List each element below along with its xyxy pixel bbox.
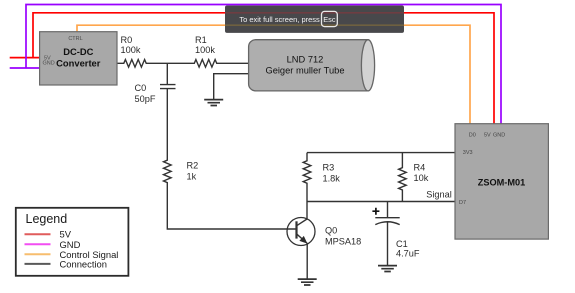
svg-text:R4: R4 [414,162,426,172]
svg-text:D7: D7 [459,200,466,206]
svg-text:Esc: Esc [323,15,336,24]
svg-text:1.8k: 1.8k [323,173,341,183]
svg-text:Converter: Converter [56,57,101,68]
svg-text:1k: 1k [187,171,197,181]
svg-text:C1: C1 [396,239,408,249]
svg-text:GND: GND [493,133,505,139]
svg-text:To exit full screen, press: To exit full screen, press [239,15,320,24]
svg-text:R0: R0 [121,35,133,45]
svg-text:D0: D0 [469,133,476,139]
svg-text:R2: R2 [187,161,199,171]
svg-text:ZSOM-M01: ZSOM-M01 [478,177,525,187]
svg-text:Connection: Connection [60,258,107,269]
svg-text:100k: 100k [195,45,215,55]
svg-text:Geiger muller Tube: Geiger muller Tube [265,66,344,76]
svg-text:MPSA18: MPSA18 [325,236,361,246]
svg-text:DC-DC: DC-DC [63,46,93,57]
svg-text:R1: R1 [195,35,207,45]
svg-text:GND: GND [43,61,55,67]
svg-text:4.7uF: 4.7uF [396,249,420,259]
svg-text:C0: C0 [135,83,147,93]
svg-text:50pF: 50pF [135,94,156,104]
svg-text:100k: 100k [121,45,141,55]
svg-text:Q0: Q0 [325,225,337,235]
svg-text:10k: 10k [414,173,429,183]
svg-text:Legend: Legend [26,212,68,226]
svg-text:5V: 5V [484,133,491,139]
svg-text:Signal: Signal [426,190,452,200]
svg-text:CTRL: CTRL [68,36,82,42]
svg-text:3V3: 3V3 [463,150,473,156]
svg-text:R3: R3 [323,163,335,173]
svg-text:LND 712: LND 712 [287,55,324,65]
